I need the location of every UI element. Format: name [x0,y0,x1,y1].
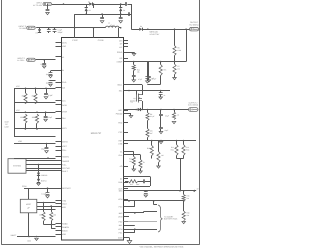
svg-text:VDD: VDD [18,140,23,143]
node label SGM [4,121,9,129]
svg-text:Rth: Rth [164,69,167,72]
resistor R1a [22,88,28,103]
connector J2 [27,26,36,29]
junction r1-b [35,102,37,104]
IC U1 pin VL [56,56,65,59]
capacitor C6 [47,28,51,33]
junction ref-c [183,140,185,142]
wire rail r5 [14,143,56,145]
IC U1 pin AUX [118,188,128,191]
capacitor C16 [145,62,156,81]
junction r7 [47,187,49,189]
junction ref-b [176,140,178,142]
transistor Q1 [130,94,142,103]
IC U1 pin BST [119,109,128,112]
IC U1 pin THM [56,199,67,202]
svg-text:RESTART: RESTART [62,187,71,190]
svg-text:CELL: CELL [62,149,67,152]
ground vbatt [35,238,39,240]
junction dot D3 top [120,3,122,5]
diode D5 [36,28,41,35]
wire r1112 down [180,159,182,191]
wire L1 right [119,27,121,29]
svg-text:DHI: DHI [119,39,123,42]
svg-text:BK2: BK2 [119,212,123,215]
IC U1 pin AO [120,165,128,168]
svg-text:1k: 1k [177,114,179,117]
ground C9 [49,76,53,78]
wire tap down [93,4,95,8]
wire r11 bot [176,156,178,159]
IC U1 pin FAULT [56,170,69,173]
junction dot top mid [93,3,95,5]
junction dot rail-c [120,13,122,15]
resistor R7 [173,62,180,78]
wire pack b [124,201,135,207]
svg-text:PGND2: PGND2 [116,112,123,115]
resistor R3 [39,212,45,221]
node BATT label [193,188,199,192]
junction dot in2b [54,27,56,29]
wire pack e [124,225,135,227]
diode D8 [138,108,189,111]
svg-text:SMBCB: SMBCB [62,226,69,229]
wire rail r6 [14,158,56,160]
junction r5b [174,61,176,63]
node label vcc [16,85,20,88]
ground pk4 [127,241,132,244]
IC U1 pin LDO [56,45,67,48]
junction rA-c [45,88,47,90]
IC U1 pin LX1 [119,46,128,49]
wire U3 c [37,209,56,211]
svg-text:ONI: ONI [62,117,66,120]
resistor R10 [172,110,179,120]
wire rail left [14,88,16,136]
junction r2c [45,111,47,113]
resistor R2a [32,88,38,103]
wire snub bot [124,186,151,188]
svg-text:SYSTEM: SYSTEM [13,165,21,168]
svg-text:DCIN: DCIN [62,41,67,44]
wire pack b2 [124,212,158,214]
IC U1 pin CSP [118,131,128,134]
svg-text:VL: VL [62,56,64,59]
wire pack g [124,229,135,233]
ground C15 [132,77,136,82]
diode D2 [85,4,91,14]
wire U2 d [26,170,56,172]
capacitor C3 [100,18,104,19]
svg-text:100k: 100k [177,49,181,52]
junction r1-a [25,102,27,104]
svg-text:4.7µH: 4.7µH [110,24,116,27]
junction U3 b [50,205,52,207]
wire pack a2 [154,201,158,205]
border frame bottom [2,244,200,246]
connector J3 [27,58,36,61]
junction bst2 [147,109,149,111]
IC U1 pin DL [120,178,128,181]
border frame left [1,0,3,245]
capacitor C23 [144,179,151,183]
resistor R1 [20,114,27,129]
junction dot out1 [185,28,187,30]
junction pk2 [153,200,155,202]
svg-text:CSSN: CSSN [98,39,104,42]
IC U1 pin PGD [118,121,128,124]
capacitor C22 [144,191,148,197]
IC U1 pin DS [120,57,128,60]
wire snub top [124,176,151,178]
IC U1 pin DCIN [56,41,68,44]
svg-text:FG3: FG3 [119,205,123,208]
junction dot 93 [93,27,95,29]
svg-text:TIMER1: TIMER1 [62,155,69,158]
capacitor C9 [46,71,56,77]
wire com gnd [124,238,130,241]
junction r3b [36,128,38,130]
svg-text:VTER: VTER [62,110,68,113]
svg-text:22µF: 22µF [165,115,169,118]
svg-text:FG2: FG2 [119,221,123,224]
junction batt-a [145,190,147,192]
resistor R5 [173,29,181,55]
wire rail REF [124,140,197,142]
svg-text:SML1: SML1 [117,84,122,87]
IC U1 pin PGND2 [116,112,128,115]
IC U1 pin IADJ [56,206,67,209]
svg-text:Li+ CELL: Li+ CELL [17,59,24,62]
ground C16 [146,78,150,83]
svg-text:C8: C8 [40,63,42,66]
node OUT2 label [188,101,199,106]
svg-text:5V USB: 5V USB [19,27,26,30]
diode D3 [119,4,125,14]
svg-text:CAM: CAM [5,125,9,128]
svg-text:DL: DL [120,178,122,181]
IC U1 pin CLK [56,99,67,102]
svg-text:CSSP: CSSP [72,39,78,42]
IC U1 pin CELL [56,149,67,152]
svg-text:4V TO 28V: 4V TO 28V [33,4,43,7]
resistor R11 [170,141,178,156]
wire r12 bot [177,156,184,159]
node bracket [158,205,163,232]
junction ref-a [160,140,162,142]
resistor R12 [182,141,190,156]
resistor R15 [182,191,189,201]
wire r9 bot [147,138,149,141]
wire rail r2 [14,112,56,114]
wire r6 bottom link [147,75,160,84]
junction vb1 [28,236,30,238]
value label snubber [130,183,140,186]
wire r4 bot [51,221,55,229]
resistor R22 [132,62,140,74]
svg-text:SHDN: SHDN [62,229,68,232]
ground R7 [173,78,177,80]
resistor R6 [159,62,166,76]
IC U1 pin VA [120,151,128,154]
node VBATT label [10,234,17,237]
junction r6b [160,61,162,63]
resistor R8 [146,110,154,121]
junction U2 b [38,164,40,166]
IC U1 pin TIMER1 [56,155,69,158]
ground C21 [159,129,163,134]
connector J1 [43,2,52,5]
connector J4 [190,28,199,31]
IC U1 pin GND [56,81,67,84]
junction o2b [173,109,175,111]
wire vbatt [17,236,56,238]
wire U2 b [26,164,56,166]
ground refg [159,142,163,144]
diode D7 [37,176,46,183]
svg-text:ISETO: ISETO [62,140,68,143]
svg-text:PGD: PGD [118,121,123,124]
capacitor C13 [41,144,49,151]
resistor R4 [50,212,56,221]
ground VL [159,95,163,100]
svg-text:3.3V, 300mA: 3.3V, 300mA [188,104,199,107]
junction dot r5top [174,28,176,30]
wire C4 stub [120,14,122,17]
svg-text:BK1: BK1 [119,224,123,227]
junction dot rail-a [85,13,87,15]
svg-text:VDD: VDD [62,233,67,236]
value label 10k [131,101,134,104]
junction vb2 [36,236,38,238]
wire r4 vert [14,129,16,136]
svg-text:PGND: PGND [117,51,123,54]
IC U1 pin PGND [117,51,128,54]
ground C10 [49,84,53,86]
svg-text:VCM: VCM [118,228,123,231]
resistor R13 [129,157,135,166]
svg-text:LX1: LX1 [119,46,122,49]
svg-text:ISETI: ISETI [62,127,67,130]
svg-text:PGM: PGM [22,185,27,188]
wire vert 74 [74,14,76,38]
capacitor C17 [147,62,154,81]
svg-text:BATTERY PACK: BATTERY PACK [164,218,178,221]
svg-text:FSTCHG: FSTCHG [62,167,70,170]
capacitor C4 [119,18,123,19]
resistor R19 [157,141,164,163]
capacitor C2 series [124,2,131,6]
wire C3 stub [102,14,104,17]
wire rail cc [124,84,143,86]
IC U1 pin FG1 [119,232,128,235]
svg-text:10k: 10k [39,214,42,217]
resistor R16 [182,201,189,221]
node label PGM [22,185,27,188]
IC U1 pin BK3 [119,190,128,193]
ground C17 [147,78,151,83]
svg-text:VCM: VCM [118,198,123,201]
svg-text:5V, 500mA: 5V, 500mA [189,24,199,27]
junction dot in2a [48,27,50,29]
wire U2 c [26,168,56,170]
node label vdd2 [18,140,23,143]
IC U1 pin REF [119,139,128,142]
svg-text:LDO: LDO [62,45,66,48]
IC U1 pin TIMER2 [56,160,69,163]
svg-text:SEL: SEL [119,89,123,92]
ground D7 [37,183,41,185]
wire U3 b [37,206,56,208]
IC U1 pin BK2 [119,212,128,215]
wire pgnd2 [124,113,132,115]
wire J1 to rail [52,4,89,6]
ground R19 [157,163,161,169]
capacitor C14 [41,188,49,195]
IC U1 pin COM [118,237,128,240]
wire r5 bot [174,56,176,62]
capacitor C15 [132,70,142,81]
wire rail rA [14,88,56,90]
svg-text:R18: R18 [147,147,150,150]
node IN2 label [19,25,27,30]
IC U1 pin VTER [56,110,68,113]
junction pk1 [128,200,130,202]
svg-text:1nF: 1nF [150,132,153,135]
wire r18 bot [151,156,153,159]
ground C3 [100,21,104,23]
svg-text:0.1µF: 0.1µF [150,115,154,118]
svg-text:IADJ: IADJ [62,206,66,209]
wire D1 to C2 [93,4,124,6]
capacitor C10 [46,80,56,85]
junction r5 [46,143,48,145]
node caption [139,246,184,249]
svg-text:VADJ: VADJ [62,202,67,205]
node IN1 label [33,1,43,6]
resistor R20 [125,180,144,183]
ground C13 [45,151,49,153]
ground C11 [44,97,48,99]
ground R14 [139,169,143,174]
capacitor C11 [44,88,53,97]
IC U1 pin DATA [56,104,68,107]
IC U1 pin ONI [56,117,66,120]
svg-text:VBATT: VBATT [10,234,17,237]
junction J1 dot [63,3,65,5]
ground R10 [172,122,176,124]
junction r6 [47,157,49,159]
capacitor C1 [46,10,50,11]
capacitor C5 series [127,12,131,16]
svg-text:COM: COM [118,237,123,240]
capacitor C21 [159,116,168,132]
op-amp U1 MAX1737 body [62,38,124,241]
wire rail r1 [14,102,56,104]
svg-text:1N4148: 1N4148 [41,174,47,177]
wire U2 a [26,160,56,162]
wire pgm down [28,188,30,199]
capacitor C7 [53,28,57,33]
junction r3a [25,128,27,130]
inductor L1 [106,22,120,28]
junction r18 [151,140,153,142]
IC U1 pin SMBCB [56,226,70,229]
svg-text:200k: 200k [32,116,36,119]
wire rail BATT [124,190,197,192]
IC U1 pin CSB [118,142,128,145]
wire D4 to J4 [143,29,190,31]
capacitor C20 [159,110,169,118]
IC U1 pin DHI [119,39,128,42]
junction dot 74 [74,27,76,29]
value label C6 C7 [58,29,64,34]
svg-text:FAULT: FAULT [62,170,69,173]
wire LX drop [118,28,120,38]
IC U1 pin COMP [117,60,128,63]
pin label CSSN [98,39,104,42]
wire rail r7 [24,188,56,190]
IC U1 pin FG3 [119,205,128,208]
svg-text:D5: D5 [36,32,38,35]
wire ifla [124,155,141,160]
junction comp-a [133,61,135,63]
ground R16 [182,222,186,224]
junction U3 a [43,202,45,204]
capacitor C8 [40,60,46,66]
svg-text:MAX1737: MAX1737 [91,132,102,135]
capacitor C24 [159,91,166,98]
wire r3 bot [44,221,56,225]
svg-text:VSET: VSET [62,145,68,148]
node label gnd2 [27,240,32,243]
wire ru b [51,206,53,212]
wire PGND [124,52,135,53]
IC U1 pin VCM [118,198,128,201]
IC U1 pin FSTCHG [56,167,71,170]
wire va [124,152,134,157]
junction pk2b [183,200,185,202]
capacitor C12 [44,112,53,119]
ground C12 [44,119,48,121]
resistor R9 [146,121,153,138]
node label vcc2 [16,109,20,112]
wire stub down C1 [47,4,49,9]
IC U1 pin VSET [56,145,68,148]
ground PGND [132,54,136,56]
wire rail r3 [14,128,56,130]
diode D4 [131,25,142,31]
IC U1 pin SHDN [56,229,68,232]
node bracket label [164,215,178,220]
junction vl [160,90,162,92]
diode D6 [37,165,47,177]
IC U1 pin BK1 [119,224,128,227]
resistor R2 [32,114,39,129]
svg-text:SMBD: SMBD [62,222,68,225]
IC U1 pin ISETI [56,127,68,130]
svg-text:10k: 10k [53,214,56,217]
IC U1 pin SEL [119,89,128,92]
wire pack d [124,221,158,223]
svg-text:BK3: BK3 [119,190,123,193]
IC U1 pin VDD [56,233,67,236]
ground C4 [119,21,123,23]
junction rA-b [35,88,37,90]
ground C8 [42,66,46,68]
ground pgnd2g [129,114,133,118]
svg-text:TIMER2: TIMER2 [62,160,69,163]
